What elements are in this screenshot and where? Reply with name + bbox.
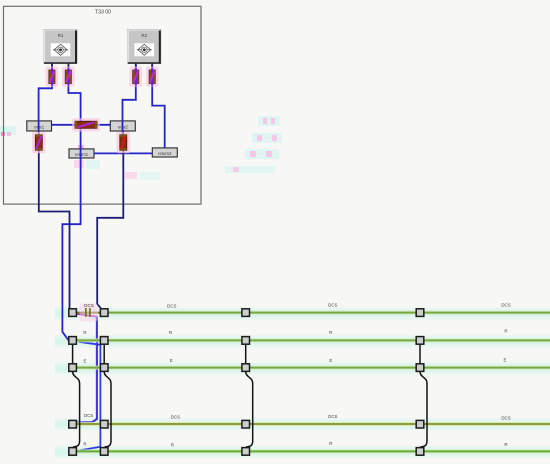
svg-text:E: E [329, 358, 332, 363]
svg-text:DCS: DCS [84, 303, 94, 308]
connector return2 [152, 148, 177, 157]
labels bus DCS [167, 302, 511, 308]
svg-text:DCS: DCS [328, 303, 337, 308]
svg-text:R: R [504, 442, 507, 447]
svg-text:R: R [329, 441, 332, 446]
link R-C1 to E-C1 [72, 345, 74, 363]
node R-C3 [242, 337, 250, 345]
svg-text:DCS: DCS [84, 413, 93, 418]
svg-text:E: E [84, 359, 87, 364]
fuse F2 under R1 pin2 [62, 64, 75, 87]
svg-text:R: R [83, 330, 86, 335]
fuse F7 below eca2 [117, 132, 131, 154]
svg-text:R: R [171, 442, 174, 447]
node DCS2-C4 [416, 420, 424, 428]
node DCS-C1 [69, 309, 77, 317]
node E-C1 [69, 364, 77, 372]
bus R [77, 338, 550, 342]
curve E-C1 to R2-C1 [73, 372, 80, 447]
node R-C2 [100, 337, 108, 345]
svg-text:E: E [504, 357, 507, 362]
node R2-C1 [69, 448, 77, 456]
bus R2 [77, 449, 550, 453]
labels bus DCS2 [84, 413, 511, 420]
node R2-C4 [416, 448, 424, 456]
node R-C4 [416, 337, 424, 345]
node E-C4 [416, 364, 424, 372]
curve E-C2 to R2-C2 [104, 372, 111, 447]
wire R1 pin2 through return1 down-left to bus row R [62, 64, 80, 341]
wire DCS drop (violet) to node DCS2-C1 [77, 314, 97, 423]
labels bus E [84, 357, 507, 363]
svg-text:R1: R1 [58, 33, 64, 38]
svg-text:DCS: DCS [328, 414, 337, 419]
node DCS2-C2 [100, 420, 108, 428]
wire eca2 drop to node DCS-C2 [97, 131, 123, 308]
node E-C2 [100, 364, 108, 372]
svg-text:R: R [83, 442, 86, 447]
node E-C3 [242, 364, 250, 372]
svg-text:T33 00: T33 00 [95, 10, 111, 16]
wire R2 pin1 to eca2 [123, 64, 136, 137]
node DCS-C2 [100, 309, 108, 317]
svg-text:DCS: DCS [501, 416, 510, 421]
fuse F6 below eca1 [32, 132, 46, 154]
link R-C4 to E-C4 [419, 345, 421, 363]
wire return1 to return2 [94, 152, 152, 154]
link R-C2 to E-C2 [103, 345, 105, 363]
connector eca1 [27, 121, 52, 131]
ECU R1 [44, 30, 77, 64]
wire eca1 to eca2 [52, 124, 111, 126]
svg-text:R: R [504, 329, 507, 334]
bus DCS (top) [77, 311, 550, 315]
fuse F4 under R2 pin2 [146, 64, 159, 87]
svg-text:DCS: DCS [167, 304, 176, 309]
bus DCS2 [77, 422, 550, 426]
bus E [77, 366, 550, 370]
node R2-C2 [100, 448, 108, 456]
node R2-C3 [242, 448, 250, 456]
node DCS2-C1 [69, 420, 77, 428]
connector eca2 [110, 121, 135, 131]
node DCS-C3 [242, 309, 250, 317]
node DCS2-C3 [242, 420, 250, 428]
svg-text:R: R [329, 330, 332, 335]
subsystem box T33 00 [4, 6, 202, 204]
wire R tap (blue) to node R2-C1 [78, 342, 101, 451]
svg-text:DCS: DCS [501, 302, 510, 307]
capacitor DCS termination [80, 304, 99, 322]
svg-text:E: E [170, 358, 173, 363]
wire R1 pin1 to eca1 [39, 64, 52, 137]
labels bus R [83, 329, 507, 335]
curve E-C4 to R2-C4 [420, 372, 427, 447]
fuse F3 under R2 pin1 [129, 64, 142, 87]
svg-text:DCS: DCS [171, 414, 180, 419]
svg-text:R2: R2 [141, 33, 147, 38]
wire R2 pin2 to return2 [152, 64, 165, 148]
svg-text:return2: return2 [158, 151, 172, 156]
fuse F1 under R1 pin1 [46, 64, 59, 87]
fuse F5 on eca1-eca2 wire [72, 118, 100, 131]
connector return1 [69, 149, 94, 158]
link R-C3 to E-C3 [245, 345, 247, 363]
svg-text:return1: return1 [75, 152, 89, 157]
node DCS-C4 [416, 309, 424, 317]
wire eca1 drop to node DCS-C1 [39, 131, 70, 308]
curve E-C3 to R2-C3 [246, 372, 253, 447]
svg-text:R: R [169, 330, 172, 335]
ECU R2 [128, 30, 161, 64]
node R-C1 [69, 337, 77, 345]
labels bus R2 [83, 441, 507, 447]
